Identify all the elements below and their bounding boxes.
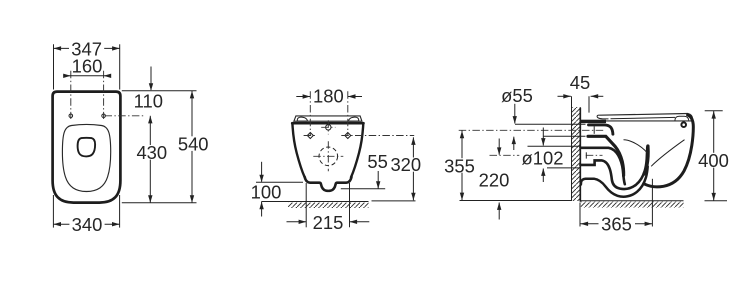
svg-text:220: 220 bbox=[479, 170, 510, 191]
svg-text:215: 215 bbox=[313, 212, 344, 233]
svg-text:ø102: ø102 bbox=[522, 147, 564, 168]
svg-text:400: 400 bbox=[698, 150, 729, 171]
svg-text:340: 340 bbox=[72, 214, 103, 235]
svg-text:45: 45 bbox=[570, 72, 590, 93]
svg-text:180: 180 bbox=[313, 86, 344, 107]
svg-text:320: 320 bbox=[390, 154, 421, 175]
svg-text:100: 100 bbox=[251, 181, 282, 202]
svg-text:160: 160 bbox=[72, 56, 103, 77]
svg-text:430: 430 bbox=[136, 142, 167, 163]
svg-text:540: 540 bbox=[178, 133, 209, 154]
svg-text:355: 355 bbox=[444, 156, 475, 177]
svg-text:110: 110 bbox=[134, 91, 163, 112]
svg-text:ø55: ø55 bbox=[501, 85, 533, 106]
svg-text:55: 55 bbox=[367, 151, 387, 172]
svg-text:365: 365 bbox=[601, 214, 632, 235]
